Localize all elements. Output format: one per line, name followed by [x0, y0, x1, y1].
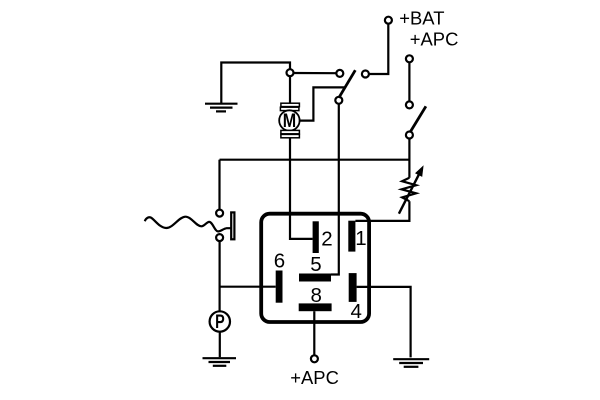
- wire motor right side up to switch S1 blade: [300, 87, 345, 120]
- ground G1 top-left: [205, 104, 238, 112]
- terminal +BAT circle: [385, 17, 392, 24]
- wire S2 pivot down to rheostat: [408, 139, 410, 178]
- node J1 junction circle above motor: [287, 69, 294, 76]
- wire sender to P junction: [219, 241, 221, 311]
- sender upper contact circle: [216, 210, 223, 217]
- wire left column down to sender contact: [218, 160, 220, 210]
- svg-text:M: M: [283, 111, 296, 132]
- svg-text:2: 2: [321, 227, 332, 250]
- wire junction to relay pin 6: [220, 286, 276, 288]
- wire J1 to switch S1 contact A: [294, 72, 337, 74]
- wire main horizontal bus: [220, 159, 410, 161]
- switch S1 contact B: [362, 71, 369, 78]
- relay pin 4 bar: [349, 273, 357, 302]
- sender plate: [231, 212, 234, 239]
- ground G3 bottom-right: [393, 359, 429, 367]
- switch S1 pivot: [335, 97, 342, 104]
- relay pin 8 bar: [299, 303, 332, 311]
- svg-text:P: P: [215, 312, 225, 333]
- svg-text:1: 1: [355, 227, 366, 250]
- relay pin 6 bar: [276, 271, 283, 303]
- motor M1 top brush blocks: [280, 103, 299, 110]
- switch S2 blade: [410, 106, 426, 131]
- switch S2 fixed contact: [406, 101, 413, 108]
- wire motor bottom down to relay pin 2: [290, 138, 313, 239]
- wire +APC terminal down to switch S2: [408, 62, 410, 101]
- relay pin 1 bar: [348, 221, 355, 252]
- switch S2 pivot: [406, 132, 413, 139]
- wire relay pin 1 to rheostat bottom: [355, 201, 409, 221]
- wire P down to ground: [219, 332, 221, 358]
- motor M1 bottom brush blocks: [281, 130, 300, 137]
- wire S1 pivot down to relay pin 5: [331, 104, 339, 275]
- wire top-left horizontal from ground to motor column: [221, 63, 290, 104]
- wire relay pin 8 down to +APC terminal: [313, 311, 315, 355]
- svg-text:6: 6: [274, 250, 285, 273]
- svg-text:+APC: +APC: [290, 367, 339, 388]
- svg-text:+APC: +APC: [410, 29, 459, 50]
- relay pin 5 bar: [299, 274, 331, 282]
- wire J1 down to motor: [289, 76, 291, 103]
- svg-text:8: 8: [310, 284, 321, 307]
- wire relay pin 4 to ground G3: [357, 287, 411, 358]
- rheostat arrow head: [415, 165, 424, 177]
- terminal +APC circle: [406, 55, 413, 62]
- motor M1 body circle: [279, 110, 299, 130]
- switch S1 contact A: [336, 70, 343, 77]
- rheostat arrow shaft: [399, 173, 420, 213]
- ground G2 bottom-left: [203, 358, 237, 366]
- wire contact B to +BAT terminal: [369, 24, 388, 74]
- svg-text:+BAT: +BAT: [399, 7, 444, 28]
- pressure sender P circle: [210, 311, 230, 331]
- sender lower contact circle: [216, 234, 223, 241]
- switch S1 blade: [339, 70, 356, 98]
- rheostat R1 zigzag: [402, 178, 417, 201]
- relay pin 2 bar: [313, 221, 319, 253]
- terminal +APC bottom circle: [311, 355, 318, 362]
- svg-text:4: 4: [350, 300, 361, 323]
- svg-text:5: 5: [310, 253, 321, 276]
- sender squiggle wire: [145, 217, 231, 232]
- relay box outline: [261, 214, 369, 322]
